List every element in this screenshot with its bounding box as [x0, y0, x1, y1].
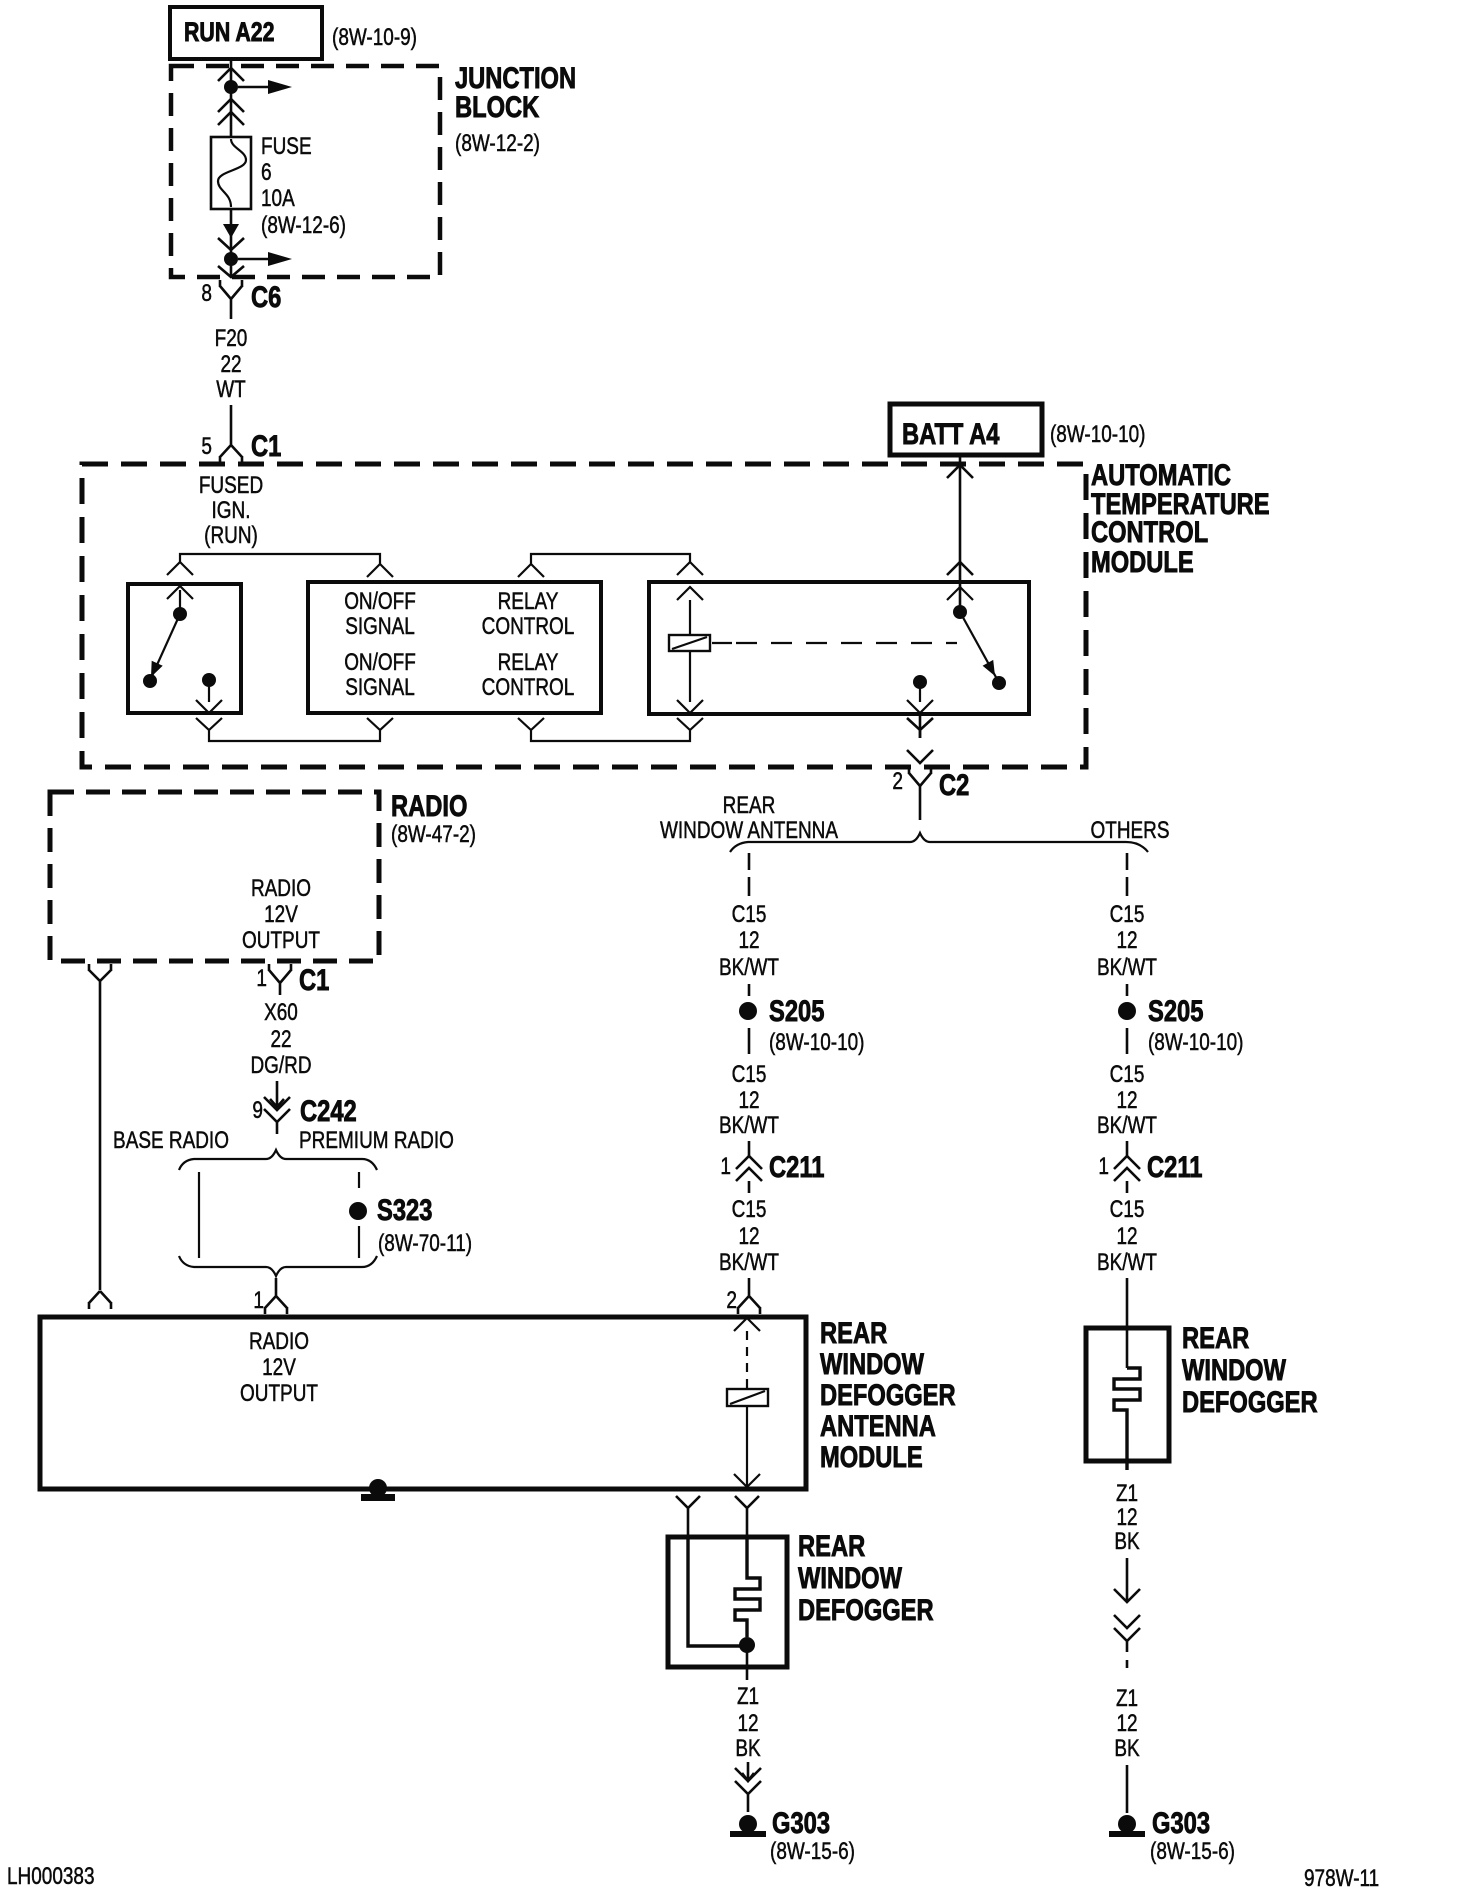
svg-text:BK/WT: BK/WT: [719, 1249, 779, 1276]
defogger label (left): [798, 1530, 934, 1627]
power source box RUN A22: [170, 7, 322, 59]
svg-text:8: 8: [201, 280, 212, 307]
splice S205 (right): [1118, 995, 1203, 1028]
wire from RUN A22 into junction block: [230, 59, 233, 137]
relay K1 box: [649, 582, 1029, 714]
svg-text:C15: C15: [1110, 901, 1145, 928]
svg-text:C15: C15: [1110, 1196, 1145, 1223]
svg-text:C211: C211: [1147, 1151, 1202, 1184]
svg-text:1: 1: [256, 965, 267, 992]
svg-text:(8W-12-6): (8W-12-6): [261, 212, 346, 239]
svg-text:6: 6: [261, 159, 272, 186]
wire into C242: [270, 1081, 284, 1107]
svg-text:G303: G303: [772, 1807, 830, 1840]
chevron into switch box: [167, 562, 193, 575]
svg-text:12: 12: [738, 927, 759, 954]
svg-text:BASE RADIO: BASE RADIO: [113, 1127, 229, 1154]
wire to ground G303 right: [1126, 1765, 1129, 1813]
svg-text:1: 1: [253, 1287, 264, 1314]
wire segment below S205 right: [1126, 1028, 1129, 1054]
svg-text:RADIO: RADIO: [249, 1328, 309, 1355]
wire below fuse: [230, 209, 233, 277]
connector C211 pin 1 (right): [1098, 1151, 1202, 1193]
wire Z1 12 BK (left): [735, 1683, 760, 1762]
svg-text:RADIO: RADIO: [391, 790, 467, 823]
svg-text:BK/WT: BK/WT: [1097, 1112, 1157, 1139]
svg-text:12V: 12V: [264, 901, 298, 928]
svg-text:REAR: REAR: [820, 1317, 887, 1350]
svg-text:(8W-47-2): (8W-47-2): [391, 821, 476, 848]
relay coil input chevron: [677, 587, 703, 600]
svg-text:CONTROL: CONTROL: [482, 613, 575, 640]
bottom bracket relay control to relay coil: [518, 718, 703, 741]
svg-text:OUTPUT: OUTPUT: [240, 1380, 318, 1407]
svg-text:2: 2: [892, 768, 903, 795]
chevron below relay box: [907, 718, 933, 738]
svg-text:CONTROL: CONTROL: [482, 674, 575, 701]
relay coil output arrowhead: [677, 700, 703, 713]
defogger grid element (left): [688, 1537, 760, 1646]
on/off signal and relay control box: [308, 582, 601, 713]
wire bracket from relay control to relay coil: [531, 554, 690, 564]
ground G303 (right): [1109, 1807, 1210, 1840]
in-line connector on left ground wire: [735, 1762, 761, 1812]
svg-text:12: 12: [738, 1087, 759, 1114]
svg-text:(8W-15-6): (8W-15-6): [1150, 1838, 1235, 1865]
automatic temperature control module dashed box: [82, 464, 1086, 767]
in-line connector on right ground wire: [1114, 1615, 1140, 1668]
wire C15 12 BK/WT (right, 1): [1097, 901, 1157, 981]
wire C15 12 BK/WT (right, 2): [1097, 1061, 1157, 1139]
svg-text:12: 12: [1116, 1223, 1137, 1250]
svg-text:DEFOGGER: DEFOGGER: [798, 1594, 934, 1627]
svg-text:SIGNAL: SIGNAL: [345, 613, 415, 640]
svg-text:BK/WT: BK/WT: [1097, 954, 1157, 981]
relay normally-open contact dot: [992, 676, 1006, 690]
merge brace above antenna module pin 1: [179, 1256, 377, 1276]
svg-text:(8W-10-9): (8W-10-9): [332, 24, 417, 51]
ground G303 (left): [730, 1807, 830, 1840]
svg-text:ANTENNA: ANTENNA: [820, 1410, 936, 1443]
svg-text:C15: C15: [732, 1061, 767, 1088]
rear window defogger box (left): [668, 1537, 787, 1667]
switch common contact dot: [173, 607, 187, 621]
svg-text:(8W-10-10): (8W-10-10): [769, 1029, 865, 1056]
switch output wire with arrowhead: [196, 680, 222, 713]
svg-text:BK/WT: BK/WT: [1097, 1249, 1157, 1276]
svg-text:ON/OFF: ON/OFF: [344, 649, 416, 676]
chevron at module boundary on batt wire: [947, 465, 973, 478]
svg-text:1: 1: [720, 1153, 731, 1180]
wire base radio branch: [198, 1172, 200, 1258]
wire C15 12 BK/WT (left, 1): [719, 901, 779, 981]
switch output contact dot: [202, 673, 216, 687]
power source box BATT A4: [890, 404, 1042, 455]
arrow to other circuits (bottom): [238, 252, 292, 266]
defogger grid element (right): [1114, 1368, 1140, 1470]
svg-text:BLOCK: BLOCK: [455, 91, 540, 124]
svg-text:WT: WT: [216, 376, 246, 403]
wire X60 22 DG/RD: [250, 999, 311, 1079]
svg-text:FUSED: FUSED: [199, 472, 263, 499]
connector C2 pin 2: [892, 767, 969, 802]
svg-text:(8W-10-10): (8W-10-10): [1148, 1029, 1244, 1056]
node RADIO 12V OUTPUT (antenna module): [240, 1328, 318, 1407]
wire left branch below brace: [748, 853, 751, 896]
svg-text:12: 12: [737, 1710, 758, 1737]
connector C242 pin 9: [252, 1095, 356, 1134]
svg-text:WINDOW: WINDOW: [1182, 1354, 1287, 1387]
svg-text:SIGNAL: SIGNAL: [345, 674, 415, 701]
svg-text:OTHERS: OTHERS: [1091, 817, 1170, 844]
svg-text:C1: C1: [299, 964, 329, 997]
svg-text:12V: 12V: [262, 1354, 296, 1381]
node label REAR WINDOW ANTENNA: [660, 792, 838, 844]
svg-text:RELAY: RELAY: [498, 588, 559, 615]
wire defogger to ground Z1: [746, 1645, 749, 1680]
antenna module relay coil: [727, 1389, 768, 1406]
switch blade arrowhead: [151, 661, 163, 677]
svg-text:C15: C15: [732, 1196, 767, 1223]
svg-text:ON/OFF: ON/OFF: [344, 588, 416, 615]
wire into antenna module pin 2: [748, 1278, 751, 1291]
switch blade: [152, 614, 180, 676]
svg-text:Z1: Z1: [1116, 1480, 1138, 1507]
wire segment to S205 right: [1126, 984, 1129, 996]
wire C15 12 BK/WT (right, 3): [1097, 1196, 1157, 1276]
junction block label: [455, 62, 576, 157]
wire segment below S205 left: [748, 1028, 751, 1054]
rear window defogger antenna module box: [40, 1317, 806, 1489]
svg-text:PREMIUM RADIO: PREMIUM RADIO: [299, 1127, 454, 1154]
relay armature pivot dot: [953, 605, 967, 619]
svg-text:REAR: REAR: [1182, 1322, 1249, 1355]
dashed wire to antenna relay: [746, 1331, 748, 1389]
svg-text:Z1: Z1: [737, 1683, 759, 1710]
relay control dashed link: [712, 642, 732, 644]
wire right branch below brace: [1126, 853, 1129, 896]
wire into C211 left: [748, 1141, 751, 1156]
svg-text:LH000383: LH000383: [7, 1863, 95, 1890]
svg-text:MODULE: MODULE: [820, 1441, 923, 1474]
svg-text:BK: BK: [1114, 1735, 1139, 1762]
svg-text:12: 12: [1116, 1087, 1137, 1114]
svg-text:FUSE: FUSE: [261, 133, 312, 160]
node junction dot (top): [224, 80, 238, 94]
wire bracket from fused ign to switch and on/off signal: [180, 554, 380, 564]
splice S205 (left): [739, 995, 824, 1028]
svg-text:G303: G303: [1152, 1807, 1210, 1840]
node junction dot (bottom): [224, 252, 238, 266]
relay output wire with arrowhead: [907, 682, 933, 713]
svg-text:C211: C211: [769, 1151, 824, 1184]
relay coil: [669, 635, 710, 651]
svg-text:WINDOW: WINDOW: [820, 1348, 925, 1381]
radio dashed box: [50, 792, 379, 961]
svg-text:C15: C15: [1110, 1061, 1145, 1088]
svg-text:RELAY: RELAY: [498, 649, 559, 676]
svg-text:(8W-15-6): (8W-15-6): [770, 1838, 855, 1865]
svg-text:REAR: REAR: [798, 1530, 865, 1563]
wire below antenna relay: [746, 1406, 748, 1487]
svg-text:RADIO: RADIO: [251, 875, 311, 902]
wire F20 22 WT: [215, 325, 248, 433]
svg-text:12: 12: [1116, 927, 1137, 954]
in-line double chevron below top dot: [218, 99, 244, 125]
chevron into relay control input: [518, 564, 544, 577]
on/off signal relay control labels: [344, 588, 574, 701]
svg-text:REAR: REAR: [723, 792, 776, 819]
bottom bracket switch to on/off signal: [196, 718, 393, 741]
fuse F6 10A: [211, 137, 251, 209]
svg-text:OUTPUT: OUTPUT: [242, 927, 320, 954]
svg-text:BK: BK: [1114, 1528, 1139, 1555]
svg-text:MODULE: MODULE: [1091, 546, 1194, 579]
wire with arrowhead below right defogger: [1114, 1558, 1140, 1602]
arrowhead at antenna module bottom: [734, 1474, 760, 1487]
chevron into antenna module on output wire: [89, 1291, 111, 1309]
svg-text:F20: F20: [215, 325, 248, 352]
svg-text:2: 2: [726, 1287, 737, 1314]
wire Z1 12 BK (right, lower): [1114, 1685, 1139, 1762]
connector C1 pin 1 (radio): [256, 964, 329, 997]
defogger label (right): [1182, 1322, 1318, 1419]
relay armature blade: [960, 612, 997, 679]
switch arrow to box top: [167, 586, 193, 614]
relay armature arrowhead: [983, 660, 995, 676]
node FUSED IGN (RUN): [199, 472, 263, 549]
connector C211 pin 1 (left): [720, 1151, 824, 1193]
antenna module name label: [820, 1317, 956, 1474]
svg-text:CONTROL: CONTROL: [1091, 516, 1208, 549]
svg-text:9: 9: [252, 1097, 263, 1124]
chevron into on/off signal input: [367, 564, 393, 577]
svg-text:22: 22: [220, 351, 241, 378]
svg-text:BATT A4: BATT A4: [902, 418, 1000, 451]
svg-text:12: 12: [1116, 1710, 1137, 1737]
fuse value label: [261, 133, 346, 239]
svg-text:12: 12: [738, 1223, 759, 1250]
splice S323: [349, 1194, 432, 1227]
wire segment to S205 left: [748, 984, 751, 996]
svg-text:1: 1: [1098, 1153, 1109, 1180]
svg-text:Z1: Z1: [1116, 1685, 1138, 1712]
chevron at junction block boundary: [218, 68, 244, 81]
chevron at junction block bottom edge: [218, 266, 244, 277]
chevron below antenna module left output: [676, 1496, 700, 1537]
svg-text:DG/RD: DG/RD: [250, 1052, 311, 1079]
relay output contact dot: [913, 675, 927, 689]
svg-text:C2: C2: [939, 769, 969, 802]
module name label: [1091, 459, 1270, 579]
svg-text:IGN.: IGN.: [212, 497, 251, 524]
switch S1 box: [128, 584, 241, 713]
wire C15 12 BK/WT (left, 2): [719, 1061, 779, 1139]
wire radio 12v output to antenna module: [99, 990, 102, 1290]
arrow to other circuits (top): [238, 80, 292, 94]
chevron below arrowhead: [218, 238, 244, 250]
wire into C211 right: [1126, 1141, 1129, 1156]
wire relay output to C2: [919, 714, 922, 820]
svg-text:WINDOW ANTENNA: WINDOW ANTENNA: [660, 817, 838, 844]
svg-text:C1: C1: [251, 430, 281, 463]
connector C6 pin 8: [201, 280, 281, 319]
wire into right rear window defogger: [1126, 1278, 1129, 1368]
svg-text:X60: X60: [264, 999, 298, 1026]
svg-text:C6: C6: [251, 281, 281, 314]
svg-text:BK/WT: BK/WT: [719, 1112, 779, 1139]
chassis ground on antenna module case: [361, 1479, 395, 1501]
chevron at module bottom edge: [907, 750, 933, 763]
svg-text:10A: 10A: [261, 185, 295, 212]
wire Z1 12 BK (right, upper): [1114, 1480, 1139, 1555]
splice brace below C2: [730, 833, 1148, 852]
wire C15 12 BK/WT (left, 3): [719, 1196, 779, 1276]
chevron below radio box on output wire: [89, 964, 111, 990]
radio module label: [391, 790, 476, 848]
rear window defogger box (right): [1086, 1328, 1169, 1461]
connector pin 2 into antenna module: [726, 1287, 760, 1314]
svg-text:DEFOGGER: DEFOGGER: [820, 1379, 956, 1412]
defogger output junction dot: [739, 1637, 755, 1653]
svg-text:WINDOW: WINDOW: [798, 1562, 903, 1595]
arrowhead down below fuse: [223, 224, 239, 238]
node RADIO 12V OUTPUT (radio box): [242, 875, 320, 954]
svg-text:(8W-70-11): (8W-70-11): [378, 1230, 472, 1257]
switch lower-left contact dot: [143, 674, 157, 688]
relay battery input chevron: [947, 587, 973, 600]
svg-text:22: 22: [270, 1026, 291, 1053]
svg-text:(8W-12-2): (8W-12-2): [455, 130, 540, 157]
chevron inside antenna module top: [734, 1318, 760, 1331]
svg-text:(RUN): (RUN): [204, 522, 258, 549]
svg-text:BK/WT: BK/WT: [719, 954, 779, 981]
chevron above relay box on batt wire: [947, 562, 973, 575]
svg-text:S205: S205: [769, 995, 824, 1028]
svg-text:DEFOGGER: DEFOGGER: [1182, 1386, 1318, 1419]
svg-text:BK: BK: [735, 1735, 760, 1762]
connector pin 1 into antenna module: [253, 1278, 287, 1314]
chevron into relay box top: [677, 562, 703, 575]
svg-text:RUN A22: RUN A22: [184, 17, 275, 47]
relay coil feed wire: [689, 600, 691, 702]
wire BATT A4 to relay: [959, 455, 962, 612]
splice brace below C242: [179, 1150, 377, 1170]
svg-text:978W-11: 978W-11: [1304, 1865, 1379, 1890]
svg-text:(8W-10-10): (8W-10-10): [1050, 421, 1146, 448]
svg-text:12: 12: [1116, 1504, 1137, 1531]
chevron below antenna module right output: [735, 1496, 759, 1537]
wire premium radio branch: [358, 1172, 360, 1258]
connector C1 pin 5: [201, 430, 281, 463]
svg-text:C15: C15: [732, 901, 767, 928]
svg-text:S205: S205: [1148, 995, 1203, 1028]
svg-text:C242: C242: [300, 1095, 357, 1128]
svg-text:S323: S323: [377, 1194, 432, 1227]
svg-text:5: 5: [201, 433, 212, 460]
junction block dashed box: [171, 66, 440, 277]
